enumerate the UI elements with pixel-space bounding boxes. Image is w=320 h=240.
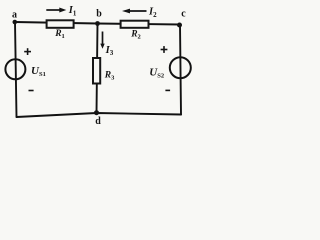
svg-text:a: a xyxy=(12,9,17,20)
svg-text:US1: US1 xyxy=(31,65,46,78)
svg-text:I3: I3 xyxy=(105,45,114,57)
svg-text:I1: I1 xyxy=(68,5,77,17)
svg-text:R3: R3 xyxy=(104,71,115,82)
svg-text:d: d xyxy=(95,116,101,127)
svg-text:R1: R1 xyxy=(54,29,65,40)
svg-text:I2: I2 xyxy=(148,7,157,19)
svg-text:R2: R2 xyxy=(130,30,141,41)
svg-text:c: c xyxy=(181,9,186,20)
svg-text:b: b xyxy=(96,8,102,19)
svg-text:US2: US2 xyxy=(149,66,164,79)
